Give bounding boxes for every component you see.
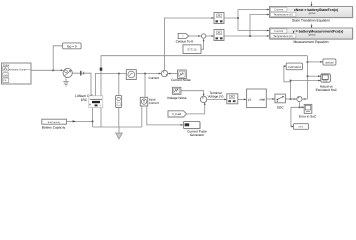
svg-text:Current: Current (274, 9, 283, 12)
Extended Kalman Filter block (247, 89, 267, 108)
wire error sum down to display (299, 102, 304, 107)
measured current wire up and right (165, 18, 215, 70)
junction B (290, 98, 292, 100)
Simulink Function: State Transition Equation (270, 7, 353, 18)
Input Current source block (140, 97, 147, 106)
SOC selector block (275, 94, 286, 103)
wire to error workspace box (291, 107, 300, 126)
Input Current source wire (144, 74, 146, 98)
wire sensor to sum (136, 73, 161, 75)
thermal port bars (80, 71, 82, 76)
svg-text:Current Noise: Current Noise (171, 78, 191, 82)
rate transition RT3 (voltage) (227, 94, 238, 104)
svg-text:global: global (309, 33, 316, 36)
svg-text:1RC: 1RC (81, 98, 88, 102)
subsystem Battery sources (Pulse / Ambient Temp) (2, 63, 32, 84)
svg-text:SOC: SOC (277, 106, 285, 110)
svg-text:global: global (309, 12, 316, 15)
scope Actual vs Estimated SoC (321, 74, 331, 82)
rate transition RT2 (temperature) (214, 30, 224, 41)
Voltage Noise block (172, 87, 181, 94)
wires below source (141, 106, 143, 127)
Celsius To-K from tag (178, 33, 189, 38)
svg-text:Current: Current (148, 76, 159, 80)
wire noise to sum (168, 73, 178, 75)
svg-text:BattCapacity: BattCapacity (48, 121, 61, 124)
Battery Capacity block (42, 119, 67, 124)
current wire to function blocks (224, 10, 269, 31)
wire V_load to voltage sum (187, 103, 205, 114)
junction on current wire (144, 73, 146, 75)
svg-text:estimated: estimated (288, 65, 301, 69)
svg-text:Voltage Noise: Voltage Noise (167, 96, 187, 100)
wire RT3 to EKF (238, 98, 247, 100)
actual SoC wire down right side (302, 56, 307, 99)
function-call stub into state transition block (311, 2, 313, 7)
wire SOC to error sum (285, 98, 296, 100)
wire EKF to SOC selector (266, 98, 274, 100)
PS converter blob on SoC tap (100, 68, 103, 71)
thermal wire to battery (72, 73, 91, 96)
SoC tap wire (actual SoC) (101, 56, 307, 96)
temperature wire to function blocks (224, 15, 269, 37)
wire up to estimated tag and scope (284, 66, 321, 99)
svg-text:Generator: Generator (190, 133, 205, 137)
svg-text:Temperature (K): Temperature (K) (273, 14, 293, 17)
svg-text:State Transition Equation: State Transition Equation (292, 19, 330, 23)
rate transition RT1 (current) (214, 13, 224, 24)
wire voltage noise to sum (181, 91, 204, 96)
svg-text:Current: Current (149, 101, 159, 105)
current sensor (126, 70, 136, 80)
svg-text:Amb: Amb (3, 74, 8, 77)
junction E to scope input 1 (307, 75, 309, 77)
solver configuration f(x)=0 (63, 43, 82, 49)
actual goto tag (323, 59, 336, 65)
svg-text:V_load: V_load (172, 112, 182, 116)
Simulink Function: Measurement Equation (270, 29, 353, 40)
junction to solver config (52, 70, 54, 72)
voltage sum circle (200, 96, 206, 102)
electrical ground (118, 127, 120, 133)
svg-text:Measurement Equation: Measurement Equation (293, 40, 328, 44)
K sum circle (201, 34, 205, 38)
error sum circle (297, 96, 302, 101)
wire constant to K sum (201, 39, 204, 49)
svg-text:273.15: 273.15 (187, 48, 197, 52)
wire sum to RT3 (207, 98, 227, 100)
estimated goto tag (286, 63, 302, 70)
svg-text:Voltage (V): Voltage (V) (208, 95, 224, 99)
svg-text:Estimated SoC: Estimated SoC (316, 88, 338, 92)
svg-text:Temperature (K): Temperature (K) (273, 35, 293, 38)
wire subsystem to temperature source (31, 69, 62, 71)
battery positive rail wire (95, 74, 126, 96)
svg-text:xhat: xhat (259, 98, 265, 102)
svg-text:actual: actual (325, 60, 333, 64)
svg-text:error: error (298, 126, 303, 129)
svg-text:Celsius To-K: Celsius To-K (176, 39, 195, 43)
current sum (add noise) (161, 70, 167, 76)
svg-text:y = batteryMeasurementFcn(x): y = batteryMeasurementFcn(x) (293, 29, 344, 33)
wire battery capacity to cell (67, 120, 93, 122)
controlled temperature source (61, 69, 64, 71)
svg-text:Current: Current (274, 30, 283, 33)
svg-text:Pulse: Pulse (3, 64, 10, 67)
thermal reference (ground) (65, 78, 67, 82)
wire tag to K sum (189, 35, 201, 37)
svg-text:xNext = batteryStateFcn(x): xNext = batteryStateFcn(x) (294, 8, 338, 12)
Error in SoC display block (304, 104, 312, 113)
bottom bus (93, 126, 142, 128)
battery cell icon (89, 96, 103, 108)
battery bottom legs (92, 108, 94, 127)
voltage sensor tap on rail (118, 73, 120, 75)
wire to f(x)=0 (53, 46, 62, 71)
svg-text:Out: Out (185, 124, 189, 127)
junction D to actual tag (307, 61, 309, 63)
Current Noise block (178, 70, 187, 79)
svg-text:Ambient Temp: Ambient Temp (9, 68, 26, 71)
wire K sum to RT2 (206, 35, 214, 37)
Current Pulse Generator scope box (184, 122, 201, 129)
voltage sensor block (116, 95, 122, 107)
constant 273.15 (183, 45, 201, 54)
function-call stub into measurement block (311, 24, 313, 28)
svg-text:f(x) = 0: f(x) = 0 (67, 44, 77, 48)
error To Workspace box (293, 124, 308, 130)
svg-text:y1: y1 (248, 98, 252, 102)
svg-text:Error in SoC: Error in SoC (299, 115, 317, 119)
svg-text:Battery Capacity: Battery Capacity (42, 126, 66, 130)
V_load from tag (168, 111, 187, 117)
